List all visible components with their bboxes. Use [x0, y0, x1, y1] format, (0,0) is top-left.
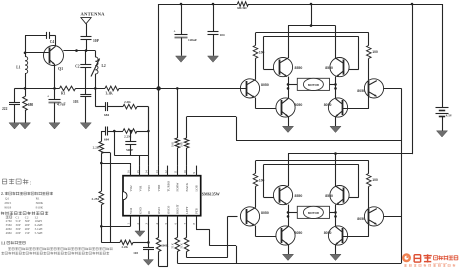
svg-text:15P: 15P [25, 231, 30, 235]
svg-text:Q1: Q1 [5, 197, 9, 201]
svg-text:10: 10 [183, 170, 187, 174]
svg-text:R1: R1 [61, 92, 66, 96]
svg-text:C2: C2 [75, 65, 80, 69]
svg-text:4.7uF: 4.7uF [57, 102, 66, 106]
svg-text:3.3K: 3.3K [106, 92, 113, 96]
svg-text:15: 15 [136, 170, 140, 174]
svg-text:RI: RI [147, 211, 151, 214]
svg-text:104: 104 [220, 33, 225, 37]
svg-text:4.5V: 4.5V [446, 114, 453, 118]
svg-text:RIGHT: RIGHT [176, 204, 180, 214]
svg-text:11: 11 [174, 170, 178, 173]
svg-text:103: 103 [133, 251, 138, 255]
svg-text:103: 103 [73, 100, 79, 104]
svg-text:20P: 20P [16, 231, 21, 235]
svg-text:2.2M: 2.2M [92, 197, 100, 201]
svg-text:120uF: 120uF [188, 38, 197, 42]
svg-text:+: + [174, 29, 176, 33]
svg-text:OSCO: OSCO [166, 205, 170, 214]
svg-text:OSCI: OSCI [157, 207, 161, 214]
svg-text:51K: 51K [180, 242, 184, 248]
svg-text:5.5uH: 5.5uH [35, 231, 44, 235]
svg-text:2.: 2. [1, 192, 4, 196]
svg-text:2.2K: 2.2K [122, 245, 129, 249]
svg-text:1.1: 1.1 [1, 241, 6, 245]
svg-text:Q1: Q1 [58, 66, 63, 71]
svg-text:12: 12 [164, 170, 168, 174]
svg-text:VO1: VO1 [138, 185, 142, 191]
svg-text:680: 680 [28, 103, 34, 107]
svg-text:BACK: BACK [185, 182, 189, 191]
svg-text:VO4: VO4 [129, 208, 133, 214]
svg-text:VO3: VO3 [147, 185, 151, 191]
svg-text:FORW: FORW [176, 183, 180, 192]
svg-text:PZB: PZB [194, 208, 198, 214]
svg-text:2815: 2815 [4, 201, 11, 205]
svg-text:9018: 9018 [4, 205, 11, 209]
svg-text:10K: 10K [180, 141, 184, 147]
svg-text:LOB: LOB [194, 185, 198, 191]
svg-text:+: + [47, 94, 49, 98]
svg-text:16: 16 [127, 170, 131, 174]
svg-text:10P: 10P [93, 39, 100, 43]
svg-text:LEFT: LEFT [185, 206, 189, 214]
svg-text:13: 13 [155, 170, 159, 174]
svg-text:680-560: 680-560 [237, 7, 247, 10]
svg-text:10K: 10K [170, 141, 174, 147]
svg-text:TURBO: TURBO [166, 180, 170, 191]
svg-text:L2: L2 [102, 64, 106, 68]
svg-text:SM6135W: SM6135W [202, 191, 220, 196]
svg-text:C4: C4 [50, 40, 55, 44]
svg-text:VDD: VDD [157, 184, 161, 191]
svg-text:51K: 51K [170, 242, 174, 248]
svg-text:684: 684 [104, 137, 109, 141]
svg-text:14: 14 [145, 170, 149, 174]
svg-text:360K: 360K [36, 201, 44, 205]
svg-text:684: 684 [104, 113, 109, 117]
svg-text:ANTENNA: ANTENNA [81, 12, 106, 17]
svg-text:R1: R1 [36, 197, 40, 201]
svg-text:2.2K: 2.2K [93, 146, 100, 150]
svg-text:L1: L1 [16, 66, 20, 70]
svg-text:222: 222 [2, 107, 8, 111]
svg-text:GND: GND [138, 207, 142, 214]
svg-text:49M: 49M [6, 231, 12, 235]
svg-text:910K: 910K [36, 205, 44, 209]
svg-text:500P: 500P [126, 148, 133, 152]
svg-text:2.2K: 2.2K [124, 100, 131, 104]
svg-text:VO2: VO2 [129, 185, 133, 191]
